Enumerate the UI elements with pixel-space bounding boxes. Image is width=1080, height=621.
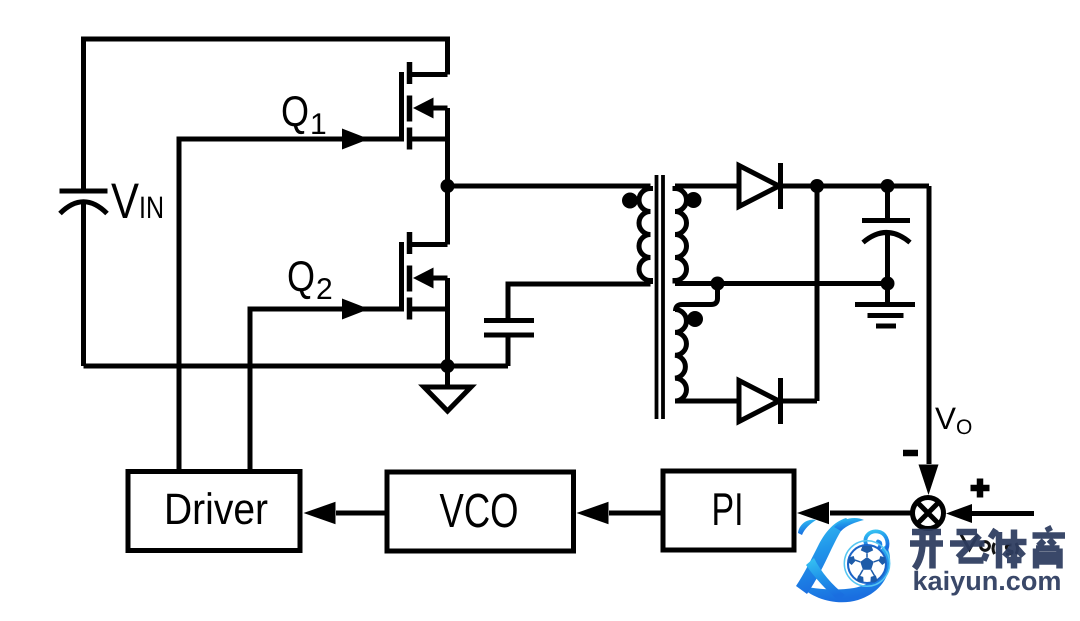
arrow into Driver: [304, 502, 336, 524]
label V_ref: [961, 535, 1018, 555]
wire Co top lead: [885, 186, 890, 221]
svg-text:PI: PI: [712, 483, 744, 535]
wire D1 cathode to output corner: [782, 184, 929, 189]
svg-text:V: V: [935, 401, 956, 436]
transistor Q1: [402, 62, 448, 186]
node center tap: [711, 277, 725, 291]
diode D2: [739, 378, 781, 424]
node Q2 source ground junction: [441, 359, 455, 373]
wire D2 cathode to rectifier vertical: [782, 399, 817, 404]
svg-text:kaiyun.com: kaiyun.com: [913, 566, 1062, 596]
transformer core: [657, 175, 664, 419]
wire input rail from Vin+ along top to Q1 drain: [84, 39, 448, 191]
block VCO: [387, 472, 574, 551]
node rectifier junction: [810, 179, 824, 193]
wire Cr bottom lead: [506, 338, 511, 367]
svg-text:Driver: Driver: [164, 485, 268, 534]
block Driver: [128, 472, 300, 551]
svg-text:IN: IN: [139, 190, 164, 225]
svg-text:V: V: [111, 173, 140, 229]
watermark logo K swoosh: [796, 518, 890, 602]
node output cap top: [881, 179, 895, 193]
svg-text:Q: Q: [287, 253, 315, 301]
wire Vo sense vertical: [927, 186, 932, 464]
wire Vin- to bottom rail: [81, 204, 86, 366]
transistor Q2: [402, 186, 448, 366]
arrow Q1 gate: [342, 129, 369, 150]
wire center tap: [675, 281, 888, 286]
svg-text:1: 1: [310, 108, 327, 141]
ground secondary earth: [855, 284, 915, 327]
wire reference input: [972, 511, 1034, 516]
wire Cr top lead to primary bottom: [508, 284, 651, 318]
label plus: [971, 479, 990, 498]
wire PI to VCO: [609, 511, 663, 516]
capacitor C_in (V_IN): [60, 191, 108, 214]
block PI: [663, 471, 794, 550]
summing junction: [913, 498, 944, 529]
diode D1: [739, 163, 781, 209]
node output cap bottom: [881, 277, 895, 291]
transformer secondary winding top: [675, 186, 687, 284]
node A half-bridge midpoint: [441, 179, 455, 193]
wire Q2 gate from Driver: [250, 309, 399, 472]
polarity dot primary: [622, 193, 638, 209]
polarity dot secondary bottom: [687, 311, 703, 327]
ground primary side: [424, 369, 471, 411]
svg-text:O: O: [956, 416, 972, 439]
capacitor Cr resonant: [484, 321, 534, 336]
arrow Vo into summing junction: [919, 465, 939, 496]
watermark soccer ball: [844, 541, 889, 586]
label minus: [903, 450, 918, 457]
transformer T1 primary winding: [639, 186, 651, 284]
wire Co bottom lead: [885, 234, 890, 284]
wire summing junction to PI: [830, 511, 913, 516]
polarity dot secondary top: [686, 192, 702, 208]
wire bottom rail: [84, 364, 509, 369]
svg-text:VCO: VCO: [440, 485, 519, 538]
watermark text kaiyun: [910, 527, 1065, 597]
svg-text:2: 2: [316, 273, 333, 306]
wire secondary top to D1 anode: [675, 184, 739, 189]
wire center tap jog to bottom winding: [676, 284, 718, 312]
svg-text:Q: Q: [281, 88, 309, 136]
capacitor Co output: [862, 221, 910, 243]
wire secondary bottom to D2 anode: [675, 399, 739, 404]
transformer secondary winding bottom: [675, 310, 686, 402]
wire node A to transformer primary: [448, 184, 651, 189]
wire VCO to Driver: [336, 511, 387, 516]
arrow into VCO: [577, 502, 609, 524]
arrow reference into summing: [946, 504, 972, 523]
watermark swirl: [865, 531, 887, 550]
wire Q1 gate from Driver: [179, 139, 399, 472]
arrow Q2 gate: [342, 299, 369, 320]
arrow into PI: [797, 502, 829, 524]
wire rectifier vertical D1-D2: [815, 186, 820, 401]
